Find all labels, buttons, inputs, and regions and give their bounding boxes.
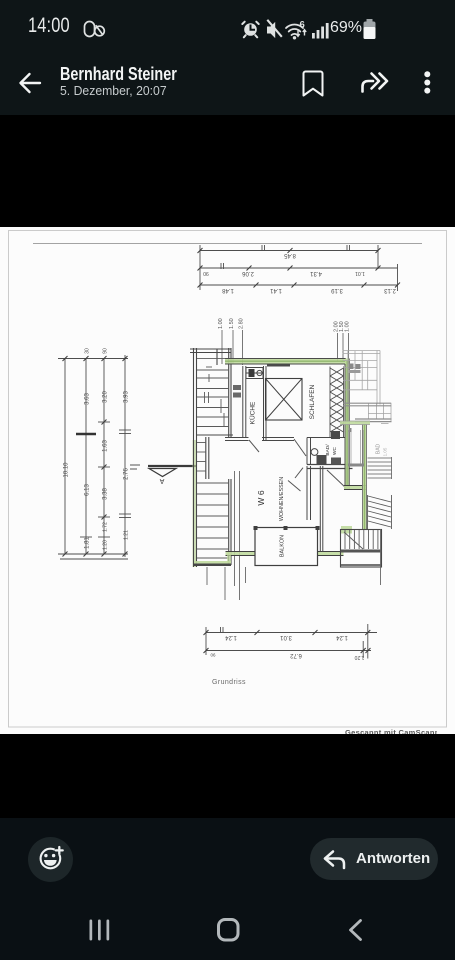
svg-text:WC: WC: [332, 446, 338, 455]
svg-text:2.06: 2.06: [242, 270, 254, 276]
svg-text:1.00: 1.00: [218, 318, 224, 329]
svg-text:8.45: 8.45: [284, 252, 296, 258]
svg-text:90: 90: [203, 270, 209, 276]
svg-text:1.63: 1.63: [103, 440, 109, 452]
svg-text:1.21: 1.21: [124, 530, 130, 540]
svg-text:6: 6: [300, 20, 305, 31]
svg-text:1.01: 1.01: [355, 270, 365, 276]
svg-text:1.81: 1.81: [85, 537, 91, 549]
svg-text:6.72: 6.72: [290, 652, 302, 658]
svg-text:6.13: 6.13: [85, 484, 91, 496]
svg-text:1.00: 1.00: [345, 321, 351, 332]
svg-text:1.20: 1.20: [354, 654, 364, 660]
svg-text:10.10: 10.10: [64, 462, 70, 478]
svg-text:3.01: 3.01: [280, 634, 292, 640]
svg-text:1.48: 1.48: [222, 287, 234, 293]
svg-text:BAD/: BAD/: [325, 444, 331, 456]
svg-text:BALKON: BALKON: [280, 535, 286, 557]
svg-text:Grundriss: Grundriss: [212, 679, 246, 686]
svg-text:BAD: BAD: [376, 443, 382, 454]
svg-text:1.24: 1.24: [336, 634, 348, 640]
svg-text:1.05: 1.05: [383, 447, 388, 456]
svg-text:1.41: 1.41: [270, 287, 282, 293]
svg-text:1.72: 1.72: [103, 522, 109, 532]
svg-text:30: 30: [85, 348, 91, 354]
svg-text:3.63: 3.63: [85, 393, 91, 405]
svg-text:90: 90: [103, 348, 109, 354]
svg-text:3.93: 3.93: [124, 391, 130, 403]
svg-text:1.24: 1.24: [225, 634, 237, 640]
svg-text:90: 90: [210, 653, 216, 658]
svg-text:SCHLAFEN: SCHLAFEN: [309, 384, 316, 419]
svg-text:KÜCHE: KÜCHE: [249, 401, 257, 424]
svg-text:WOHNEN/ESSEN: WOHNEN/ESSEN: [279, 477, 285, 521]
svg-text:3.19: 3.19: [331, 287, 343, 293]
svg-text:W 6: W 6: [256, 490, 266, 505]
svg-text:2.13: 2.13: [384, 287, 396, 293]
svg-text:4.31: 4.31: [310, 270, 322, 276]
svg-text:3.38: 3.38: [103, 488, 109, 500]
svg-text:1.50: 1.50: [229, 318, 235, 329]
svg-text:1.20: 1.20: [103, 540, 109, 550]
svg-text:2.76: 2.76: [124, 468, 130, 480]
svg-text:2.80: 2.80: [239, 318, 245, 329]
svg-text:3.20: 3.20: [103, 391, 109, 403]
svg-text:A: A: [159, 477, 164, 484]
